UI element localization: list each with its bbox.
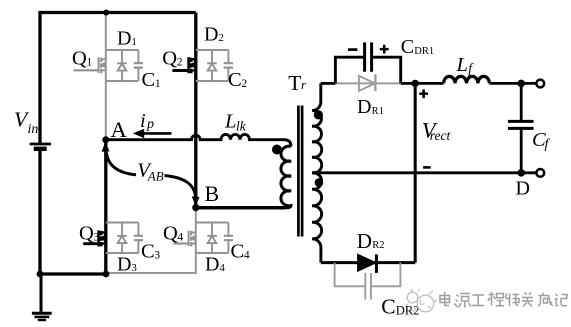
svg-text:f: f xyxy=(545,137,551,152)
battery Vin bottom plate xyxy=(34,147,47,151)
svg-text:R1: R1 xyxy=(372,106,384,117)
svg-text:Q: Q xyxy=(163,223,178,245)
svg-text:Q: Q xyxy=(79,223,94,245)
wire node to Lf and output plus xyxy=(415,82,537,85)
wire top rail and left leg xyxy=(40,13,196,143)
transformer secondary top winding xyxy=(312,111,322,173)
VAB pointer curve at node B xyxy=(165,176,200,207)
transformer core xyxy=(298,106,302,237)
svg-text:C: C xyxy=(142,69,156,91)
transistor Q3 (black) xyxy=(83,230,106,246)
svg-text:4: 4 xyxy=(244,250,250,262)
svg-text:T: T xyxy=(288,71,301,95)
plus sign CDR1 xyxy=(380,45,389,54)
svg-text:DR1: DR1 xyxy=(414,46,434,57)
wire node B to primary bottom xyxy=(196,206,285,210)
diode DR2 xyxy=(321,261,415,264)
node A xyxy=(102,136,109,143)
svg-text:C: C xyxy=(401,36,414,58)
svg-text:L: L xyxy=(224,110,236,132)
svg-text:2: 2 xyxy=(177,57,183,69)
plus sign Vrect xyxy=(419,89,428,98)
node B xyxy=(192,204,199,211)
wire secondary top lead xyxy=(312,83,321,110)
transformer secondary bottom winding xyxy=(312,173,321,239)
wire bottom rail xyxy=(40,272,106,275)
svg-text:2: 2 xyxy=(218,32,224,44)
wire DR1 cathode to node xyxy=(401,82,415,85)
diode DR1 (gray) xyxy=(335,74,401,91)
svg-text:D: D xyxy=(117,28,131,50)
polarity dot secondary bottom xyxy=(315,178,324,187)
wire Vin lower leg xyxy=(38,151,41,274)
transformer T_r primary winding xyxy=(281,146,291,208)
svg-text:f: f xyxy=(468,62,474,77)
svg-text:2: 2 xyxy=(241,78,247,90)
capacitor CDR1 xyxy=(335,57,400,83)
svg-text:3: 3 xyxy=(93,232,99,244)
node ground right xyxy=(103,271,110,278)
polarity dot primary xyxy=(272,145,282,155)
svg-text:4: 4 xyxy=(219,262,225,274)
transistor Q4 (gray) xyxy=(174,231,196,247)
minus sign CDR1 xyxy=(348,48,358,51)
svg-text:3: 3 xyxy=(154,250,160,262)
svg-text:D: D xyxy=(357,96,371,118)
svg-text:C: C xyxy=(231,241,245,263)
wire center tap rail to output minus xyxy=(312,171,537,174)
transistor Q2 (black) xyxy=(172,57,195,73)
wire secondary top to CDR1 left xyxy=(321,82,336,85)
wire secondary bottom lead xyxy=(312,239,321,263)
svg-text:4: 4 xyxy=(177,232,183,244)
node output top xyxy=(517,80,525,88)
ground xyxy=(32,274,52,320)
svg-text:Q: Q xyxy=(72,48,87,70)
wire Vrect leg xyxy=(414,83,417,262)
svg-text:p: p xyxy=(146,117,154,132)
svg-text:D: D xyxy=(516,178,530,200)
svg-text:lk: lk xyxy=(236,118,247,133)
wire Q4 leg and source return (gray) xyxy=(106,209,196,273)
wire Q2-B leg xyxy=(194,13,197,208)
svg-text:D: D xyxy=(204,24,218,46)
svg-text:1: 1 xyxy=(86,57,92,69)
svg-text:i: i xyxy=(140,110,146,132)
switch cell Q3/D3/C3 gray network xyxy=(106,223,143,254)
switch cell Q2/D2/C2 gray network xyxy=(196,50,233,81)
node junction top of Q1 leg xyxy=(103,10,109,16)
inductor Lf xyxy=(444,76,490,83)
svg-text:L: L xyxy=(456,54,468,76)
svg-text:1: 1 xyxy=(155,78,161,90)
minus sign Vrect xyxy=(423,166,431,169)
battery Vin top plate xyxy=(30,143,51,146)
switch cell Q1/D1/C1 gray network xyxy=(106,50,143,81)
node output bottom xyxy=(517,169,525,177)
polarity dot secondary top xyxy=(314,110,323,119)
node Vrect plus xyxy=(412,80,419,87)
capacitor CDR2 (gray) xyxy=(335,263,401,300)
terminal circle output bottom xyxy=(536,169,544,177)
svg-text:D: D xyxy=(117,254,131,276)
svg-text:B: B xyxy=(205,181,220,206)
watermark text xyxy=(440,292,568,308)
wire Q1 leg (gray) xyxy=(105,14,107,140)
svg-text:D: D xyxy=(205,254,219,276)
svg-text:1: 1 xyxy=(131,36,137,48)
svg-text:C: C xyxy=(228,69,242,91)
transistor Q1 (gray) xyxy=(74,57,106,73)
node ground left xyxy=(37,271,44,278)
switch cell Q4/D4/C4 gray network xyxy=(196,223,233,254)
svg-text:D: D xyxy=(357,229,372,253)
svg-text:3: 3 xyxy=(131,262,137,274)
svg-text:rect: rect xyxy=(430,128,452,143)
terminal circle output top xyxy=(536,80,544,88)
svg-text:Q: Q xyxy=(162,48,177,70)
capacitor Cf xyxy=(520,83,523,172)
wire Q3 leg xyxy=(104,140,107,274)
svg-text:AB: AB xyxy=(147,168,164,183)
VAB pointer curve at node A xyxy=(102,142,136,175)
svg-text:DR2: DR2 xyxy=(396,304,420,318)
svg-text:A: A xyxy=(111,117,128,142)
svg-text:C: C xyxy=(141,241,155,263)
current ip arrow xyxy=(133,129,172,138)
wire node A to primary top with hop over Q2 leg and inductor Llk xyxy=(106,134,291,146)
svg-text:C: C xyxy=(381,295,395,319)
svg-text:in: in xyxy=(28,122,39,137)
svg-text:R2: R2 xyxy=(372,240,384,251)
watermark lion icon xyxy=(406,289,437,312)
svg-text:r: r xyxy=(301,77,307,92)
